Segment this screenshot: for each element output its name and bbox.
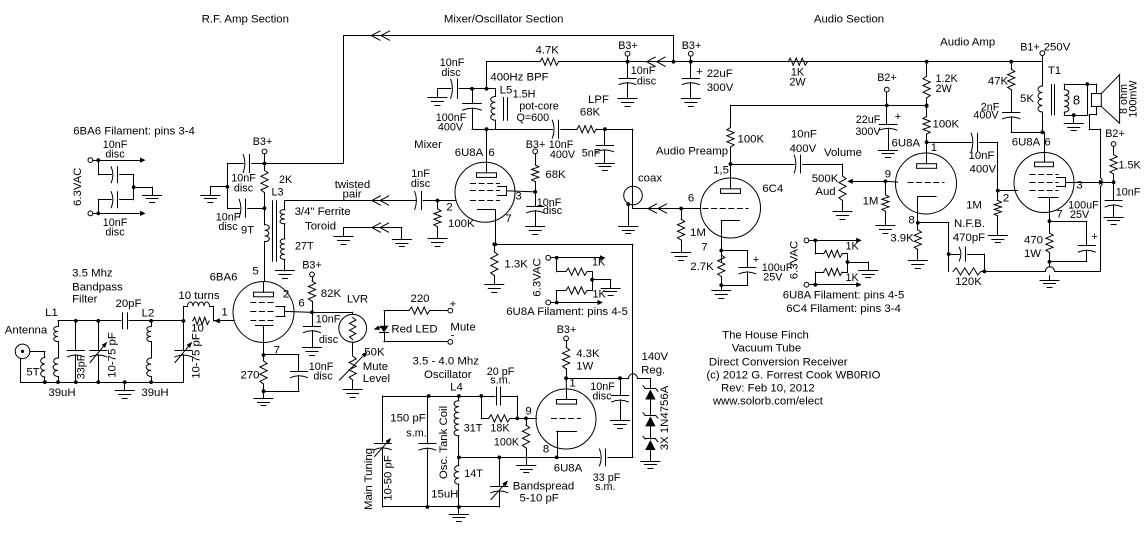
svg-text:Volume: Volume	[824, 147, 862, 159]
label pin 8 audio1	[908, 215, 914, 227]
transformer T1 primary	[1038, 62, 1044, 135]
svg-text:100mW: 100mW	[1128, 80, 1140, 118]
label 39uH left	[48, 387, 75, 399]
wire nfb top	[918, 223, 951, 272]
svg-text:6: 6	[1044, 137, 1050, 149]
svg-text:B2+: B2+	[1105, 128, 1125, 140]
resistor 1K fil2 bottom	[557, 280, 593, 303]
capacitor 10nF disc rf top	[227, 155, 264, 173]
wire osc plate	[565, 378, 567, 389]
label 5nF	[582, 148, 601, 160]
label pin 8 osc	[543, 444, 549, 456]
resistor 100K audio1	[923, 106, 930, 142]
svg-text:disc: disc	[218, 221, 238, 233]
label 10nF tank	[440, 57, 465, 79]
svg-text:Audio Amp: Audio Amp	[940, 37, 995, 49]
svg-text:3/4" Ferrite: 3/4" Ferrite	[295, 206, 351, 218]
svg-text:6.3VAC: 6.3VAC	[72, 168, 84, 206]
capacitor 10nF 400V coupling2	[927, 133, 998, 200]
svg-text:140V: 140V	[641, 351, 668, 363]
resistor 68K screen	[532, 154, 539, 192]
ground bandpass bus	[115, 382, 134, 398]
cathode osc	[557, 431, 577, 449]
label 25V output	[1070, 209, 1090, 221]
capacitor 470pF nfb	[949, 247, 985, 271]
variable capacitor 10-75 pF second	[175, 321, 192, 382]
svg-text:22uF: 22uF	[856, 114, 881, 126]
label L2	[142, 308, 155, 320]
svg-text:1K: 1K	[592, 257, 606, 269]
wire 6C4 cathode	[719, 238, 723, 262]
svg-text:2W: 2W	[789, 77, 806, 89]
wire speaker return	[1089, 106, 1100, 129]
label 33 pF	[593, 472, 621, 484]
label 6.3VAC audio	[789, 241, 801, 279]
svg-text:400V: 400V	[550, 149, 576, 161]
label sm 33	[595, 481, 615, 493]
label 5-10 pF	[520, 493, 559, 505]
core L5	[504, 98, 508, 121]
label Reg.	[641, 365, 665, 377]
label pin 7 6BA6	[274, 345, 280, 357]
svg-text:www.solorb.com/elect: www.solorb.com/elect	[712, 396, 824, 408]
wire secondary ground	[1072, 113, 1076, 123]
ground 10nF b3	[618, 99, 637, 107]
terminal filament top	[88, 158, 93, 163]
label 31T	[464, 423, 483, 435]
svg-text:33pF: 33pF	[76, 354, 88, 379]
label 10nF 400V mo	[549, 139, 576, 161]
ground osc tank	[449, 507, 468, 522]
chevrons top rail	[371, 31, 389, 40]
resistor 18K	[481, 396, 519, 422]
wire osc tap	[459, 456, 526, 460]
svg-text:Filter: Filter	[72, 294, 98, 306]
resistor 100K mixer grid	[434, 201, 441, 239]
svg-text:Bandpass: Bandpass	[72, 282, 123, 294]
label Mute pot	[363, 361, 388, 373]
label pin 6 preamp	[688, 193, 694, 205]
capacitor 22uF 300V	[682, 62, 699, 99]
label 22uF b2	[856, 114, 881, 126]
label 100uF output	[1068, 200, 1099, 212]
svg-text:6U8A Filament: pins 4-5: 6U8A Filament: pins 4-5	[506, 306, 628, 318]
svg-text:1: 1	[931, 142, 937, 154]
svg-text:6U8A Filament: pins 4-5: 6U8A Filament: pins 4-5	[783, 290, 905, 302]
label 8 in box	[1073, 93, 1080, 108]
grid osc	[552, 418, 581, 420]
terminal fil3 bottom	[804, 282, 809, 287]
capacitor 10nF disc rf bottom	[227, 199, 264, 217]
svg-text:15uH: 15uH	[431, 489, 458, 501]
label Red LED	[391, 324, 437, 336]
svg-text:6BA6: 6BA6	[210, 272, 238, 284]
antenna jack	[15, 344, 30, 359]
label copyright	[706, 370, 880, 382]
label 1W osc	[576, 361, 593, 373]
chevrons twisted bottom	[372, 223, 389, 232]
svg-text:5nF: 5nF	[582, 148, 601, 160]
svg-text:6BA6 Filament: pins 3-4: 6BA6 Filament: pins 3-4	[73, 126, 195, 138]
cathode mixer	[478, 210, 496, 223]
svg-text:4.7K: 4.7K	[535, 45, 559, 57]
label 82K	[321, 288, 342, 300]
label 120K	[955, 276, 982, 288]
label 220	[410, 293, 429, 305]
ground 5nF	[595, 164, 614, 171]
ground output cathode	[1040, 281, 1059, 288]
wire coax shield	[626, 202, 630, 226]
label B3+ 82k	[302, 260, 322, 272]
svg-text:10-50 pF: 10-50 pF	[383, 455, 395, 501]
svg-text:9: 9	[885, 169, 891, 181]
svg-text:20pF: 20pF	[116, 298, 142, 310]
wire twisted pair top	[285, 200, 417, 202]
label 25V preamp	[763, 272, 783, 284]
tube audio1 6U8A	[896, 153, 957, 214]
svg-text:39uH: 39uH	[48, 387, 75, 399]
label 10nF coup1	[791, 129, 817, 141]
label Aud	[815, 186, 835, 198]
svg-text:3.5 - 4.0 Mhz: 3.5 - 4.0 Mhz	[412, 356, 479, 368]
svg-text:6C4: 6C4	[762, 183, 783, 195]
label 1.5H	[513, 89, 536, 101]
label 1K fil2 bottom	[593, 289, 607, 301]
svg-text:1K: 1K	[593, 289, 607, 301]
svg-text:Toroid: Toroid	[305, 221, 336, 233]
label 10nF disc top	[103, 139, 128, 161]
svg-text:coax: coax	[638, 173, 662, 185]
label 6BA6 Filament pins 3-4	[73, 126, 195, 138]
label 2.7K	[690, 261, 714, 273]
ground 50K pot	[343, 390, 362, 398]
label B3+ mix screen	[526, 139, 546, 151]
capacitor 10nF 400V mixer out	[552, 120, 558, 138]
label 10-75 pF second	[191, 333, 203, 379]
label disc screen	[319, 334, 339, 346]
plate mixer	[477, 162, 497, 177]
label Q=600	[516, 112, 549, 124]
svg-text:10-75 pF: 10-75 pF	[107, 332, 119, 378]
label 10nF osc	[590, 381, 615, 403]
potentiometer 50K mute	[340, 352, 368, 381]
svg-text:Direct Conversion Receiver: Direct Conversion Receiver	[709, 357, 848, 369]
svg-text:1K: 1K	[846, 272, 860, 284]
capacitor 20pF osc	[497, 387, 518, 418]
label pin 5 6BA6	[252, 266, 258, 278]
wire 270 bottom	[262, 384, 266, 399]
terminal B3+ 22uF	[688, 51, 693, 56]
wire 6BA6 cathode	[262, 343, 266, 361]
svg-text:disc: disc	[105, 149, 125, 161]
label 15uH	[431, 489, 458, 501]
svg-text:39uH: 39uH	[141, 387, 168, 399]
svg-text:6C4 Filament: pins 3-4: 6C4 Filament: pins 3-4	[786, 303, 901, 315]
label pin 3 output	[1076, 180, 1082, 192]
svg-text:1M: 1M	[966, 200, 982, 212]
wire B2+ rail	[731, 104, 929, 108]
ground 3.9K	[908, 261, 927, 269]
label B3+ mixer rail	[618, 40, 638, 52]
svg-text:s.m.: s.m.	[406, 428, 426, 440]
wire volume bottom	[842, 201, 844, 212]
label L3	[271, 187, 283, 199]
wire mixer cath drop	[492, 242, 496, 246]
resistor 100K osc	[522, 418, 529, 457]
ground osc tap	[517, 457, 536, 472]
wire mixer grid	[436, 199, 440, 203]
svg-text:disc: disc	[441, 67, 461, 79]
svg-text:500K: 500K	[812, 173, 839, 185]
svg-text:s.m.: s.m.	[490, 375, 510, 387]
label pin 2 mixer	[446, 202, 452, 214]
ground 1M preamp	[672, 253, 691, 261]
label B1+ 250V	[1020, 42, 1070, 54]
terminal filament bottom	[88, 211, 93, 216]
svg-text:T1: T1	[1048, 65, 1061, 77]
svg-text:3: 3	[515, 191, 521, 203]
label 39uH right	[141, 387, 168, 399]
svg-text:Osc. Tank Coil: Osc. Tank Coil	[438, 406, 450, 479]
svg-text:100K: 100K	[448, 218, 475, 230]
label 8 ohm	[1118, 84, 1130, 114]
label 6U8A Filament 45	[783, 290, 905, 302]
svg-text:8: 8	[543, 444, 549, 456]
svg-text:1.5H: 1.5H	[513, 89, 536, 101]
resistor 47K	[1008, 62, 1015, 113]
label 6.3VAC filament	[72, 168, 84, 206]
wire output screen	[1066, 180, 1116, 185]
capacitor 1nF disc	[415, 192, 456, 210]
svg-text:B2+: B2+	[877, 72, 897, 84]
svg-text:68K: 68K	[545, 169, 566, 181]
svg-text:Audio Section: Audio Section	[814, 14, 884, 26]
label 1nF disc	[411, 168, 431, 190]
svg-text:10nF: 10nF	[969, 150, 995, 162]
label 22uF	[707, 68, 733, 80]
wire nfb rail	[981, 187, 1101, 272]
wire osc bottom rail	[383, 505, 500, 509]
wire mixer cathode long	[493, 222, 633, 457]
label Mixer	[414, 139, 442, 151]
label 20 pF osc	[487, 366, 515, 378]
label Filter	[72, 294, 98, 306]
capacitor 10nF disc b3	[619, 62, 636, 99]
ground filament	[143, 187, 162, 202]
svg-text:B3+: B3+	[557, 324, 577, 336]
svg-text:1: 1	[569, 378, 575, 390]
chevrons coax	[648, 204, 667, 213]
svg-text:5-10 pF: 5-10 pF	[520, 493, 559, 505]
label 6BA6	[210, 272, 238, 284]
svg-text:1M: 1M	[863, 196, 879, 208]
label Bandpass	[72, 282, 123, 294]
wire 2K to 9T	[263, 193, 267, 225]
label R.F. Amp Section	[202, 14, 289, 26]
wire rf plate to top rail	[265, 36, 344, 164]
svg-text:2: 2	[1003, 193, 1009, 205]
label The House Finch	[722, 330, 809, 342]
resistor 1.2K 2W	[923, 62, 930, 106]
label 150 pF	[390, 413, 426, 425]
inductor L5	[491, 89, 496, 129]
chevrons twisted top	[372, 196, 389, 205]
svg-text:Red LED: Red LED	[391, 324, 437, 336]
svg-text:6U8A: 6U8A	[892, 138, 921, 150]
svg-text:400V: 400V	[973, 110, 999, 122]
svg-text:2W: 2W	[936, 83, 953, 95]
label 14T	[464, 468, 483, 480]
label plus mute	[450, 299, 457, 311]
svg-text:(c) 2012 G. Forrest Cook WB0: (c) 2012 G. Forrest Cook WB0RIO	[706, 370, 880, 382]
label 400V snub	[973, 110, 999, 122]
capacitor 10nF disc screen	[304, 312, 321, 347]
label Toroid	[305, 221, 336, 233]
inductor 10 turns	[183, 302, 213, 321]
grids 6BA6	[251, 303, 276, 321]
wire fil2 top rail	[551, 255, 606, 260]
label 10nF oscreen	[1116, 187, 1141, 199]
ground 1.3K	[485, 285, 504, 293]
svg-text:6: 6	[488, 147, 494, 159]
svg-text:270: 270	[240, 370, 259, 382]
wire lpf	[561, 129, 577, 131]
wire grid to 6BA6 pin1	[214, 318, 234, 323]
wire lpf out	[596, 127, 633, 186]
svg-text:8: 8	[1073, 93, 1080, 108]
svg-text:400V: 400V	[969, 164, 996, 176]
label 3/4 Ferrite	[295, 206, 351, 218]
label 1W output	[1024, 248, 1041, 260]
label 140V	[641, 351, 668, 363]
svg-text:5: 5	[252, 266, 258, 278]
svg-text:s.m.: s.m.	[595, 481, 615, 493]
wire B1+ stub	[1042, 56, 1044, 62]
capacitor 10nF disc filament top	[98, 160, 133, 183]
label 6C4 Filament 34	[786, 303, 901, 315]
label B3+ rf	[253, 136, 273, 148]
label 1K fil3 top	[846, 241, 860, 253]
svg-text:LPF: LPF	[588, 94, 609, 106]
label plus 22uF	[696, 66, 703, 78]
svg-text:9T: 9T	[241, 225, 254, 237]
resistor 10	[193, 317, 210, 324]
plate audio1	[917, 153, 937, 168]
capacitor 20pF	[123, 313, 128, 329]
lamp LVR	[339, 314, 367, 342]
wire tank bottom rail	[472, 129, 552, 131]
ground zeners	[641, 462, 660, 469]
label 10-75 pF first	[107, 332, 119, 378]
label 6U8A mixer	[455, 147, 484, 159]
label pin 1 6BA6	[221, 307, 227, 319]
wire rf caps left join	[226, 164, 230, 209]
capacitor 5nF	[596, 129, 613, 163]
label 100K osc	[494, 437, 520, 449]
tube 6C4	[701, 178, 761, 238]
svg-text:6.3VAC: 6.3VAC	[789, 241, 801, 279]
label 400V coup1	[790, 143, 817, 155]
svg-text:8: 8	[908, 215, 914, 227]
svg-text:pot-core: pot-core	[519, 101, 559, 113]
wire B3+ stub2	[690, 56, 692, 62]
label minus mute	[451, 330, 455, 342]
svg-text:10nF: 10nF	[316, 314, 341, 326]
label T1	[1048, 65, 1061, 77]
svg-text:B3+: B3+	[618, 40, 638, 52]
label Oscillator	[424, 369, 472, 381]
wire B2+ stub	[886, 92, 888, 105]
ground 22uF b2	[879, 151, 898, 158]
wire bandpass bottom bus	[21, 380, 184, 384]
svg-text:pair: pair	[343, 189, 362, 201]
wire cathode bypass	[264, 355, 300, 372]
terminal fil3 top	[804, 238, 809, 243]
wire pot to ground	[352, 380, 354, 390]
wire lamp to pot	[352, 342, 354, 356]
wire filament top rail	[93, 158, 146, 163]
terminal B3+ mix screen	[533, 149, 538, 154]
grid 6C4	[703, 208, 748, 210]
transformer T1 secondary	[1064, 84, 1069, 115]
wire fil2 center	[590, 278, 610, 288]
label 10nF disc rf pair	[231, 173, 256, 195]
ground 10nF screen	[303, 348, 322, 356]
wire 6C4 plate node	[729, 162, 733, 178]
svg-text:+: +	[1091, 231, 1098, 243]
label L5	[500, 85, 513, 97]
wire cathode gnd stem	[1049, 262, 1051, 280]
label Osc Tank Coil	[438, 406, 450, 479]
capacitor 100nF 400V	[463, 89, 482, 129]
svg-text:5K: 5K	[1020, 93, 1034, 105]
label 100K audio1	[933, 119, 960, 131]
wire fil3 center	[846, 260, 869, 270]
label 2nF	[981, 102, 1000, 114]
svg-text:1,5: 1,5	[713, 165, 729, 177]
svg-text:10: 10	[191, 323, 204, 335]
svg-text:disc: disc	[592, 391, 612, 403]
svg-text:R.F. Amp Section: R.F. Amp Section	[202, 14, 289, 26]
resistor 1K fil3 bottom	[815, 262, 847, 285]
label 1M audio1	[863, 196, 879, 208]
capacitor 10nF disc cathode	[264, 372, 308, 392]
resistor 1M preamp	[678, 209, 685, 253]
label 10nF b3	[631, 65, 657, 88]
label pin 1 osc	[569, 378, 575, 390]
inductor L4	[454, 396, 461, 507]
svg-text:25V: 25V	[763, 272, 783, 284]
resistor 270	[260, 361, 267, 384]
plate 6C4	[721, 178, 741, 193]
label 4.3K	[576, 348, 600, 360]
wire preamp grid	[679, 207, 701, 211]
resistor 2.7K	[718, 255, 725, 291]
svg-text:disc: disc	[637, 76, 657, 88]
wire speaker return hop	[1101, 129, 1103, 187]
resistor 1K 2W	[788, 58, 808, 65]
svg-text:+: +	[696, 66, 703, 78]
svg-text:9: 9	[525, 406, 531, 418]
svg-text:N.F.B.: N.F.B.	[954, 218, 985, 230]
resistor 3.9K	[914, 230, 921, 261]
svg-text:6U8A: 6U8A	[1012, 137, 1041, 149]
label pin 3 mixer	[515, 191, 521, 203]
zener diode 1	[643, 386, 658, 416]
resistor 68K lpf	[577, 126, 597, 133]
svg-text:22uF: 22uF	[707, 68, 733, 80]
zener diode 3	[643, 436, 658, 461]
